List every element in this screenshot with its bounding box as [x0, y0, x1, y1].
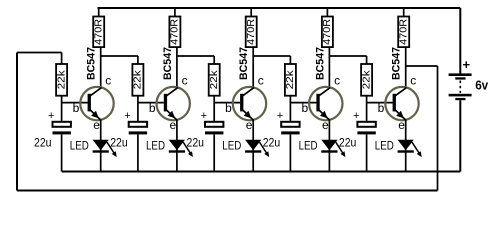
svg-text:470R: 470R: [322, 19, 333, 45]
svg-text:BC547: BC547: [314, 47, 326, 80]
svg-text:e: e: [246, 118, 253, 132]
svg-text:+: +: [353, 110, 359, 122]
svg-text:c: c: [182, 73, 188, 87]
svg-text:BC547: BC547: [162, 47, 174, 80]
svg-text:22k: 22k: [133, 69, 144, 89]
svg-text:c: c: [334, 73, 340, 87]
svg-text:e: e: [322, 118, 329, 132]
svg-text:+: +: [201, 110, 207, 122]
svg-text:c: c: [410, 73, 416, 87]
svg-text:22u: 22u: [34, 135, 52, 149]
svg-text:22k: 22k: [285, 69, 296, 89]
svg-text:+: +: [48, 110, 54, 122]
svg-text:BC547: BC547: [391, 47, 403, 80]
svg-text:c: c: [105, 73, 111, 87]
svg-text:BC547: BC547: [86, 47, 98, 80]
svg-text:b: b: [149, 101, 156, 115]
svg-text:b: b: [73, 101, 80, 115]
svg-text:22k: 22k: [56, 69, 67, 89]
svg-text:e: e: [398, 118, 405, 132]
svg-text:+: +: [124, 110, 130, 122]
svg-text:6v: 6v: [475, 78, 489, 93]
svg-text:LED: LED: [146, 139, 165, 153]
svg-text:b: b: [301, 101, 308, 115]
svg-text:b: b: [225, 101, 232, 115]
svg-text:c: c: [258, 73, 264, 87]
svg-text:22k: 22k: [209, 69, 220, 89]
svg-text:+: +: [277, 110, 283, 122]
svg-text:22u: 22u: [339, 135, 357, 149]
svg-text:LED: LED: [222, 139, 241, 153]
svg-text:470R: 470R: [246, 19, 257, 45]
svg-text:e: e: [93, 118, 100, 132]
svg-text:22k: 22k: [361, 69, 372, 89]
svg-text:470R: 470R: [398, 19, 409, 45]
svg-text:LED: LED: [70, 139, 89, 153]
svg-text:+: +: [463, 57, 471, 72]
svg-text:470R: 470R: [170, 19, 181, 45]
svg-text:22u: 22u: [263, 135, 281, 149]
svg-text:e: e: [169, 118, 176, 132]
svg-text:LED: LED: [375, 139, 394, 153]
svg-text:b: b: [378, 101, 385, 115]
svg-text:22u: 22u: [187, 135, 205, 149]
svg-text:22u: 22u: [110, 135, 128, 149]
svg-text:470R: 470R: [93, 19, 104, 45]
svg-text:LED: LED: [299, 139, 318, 153]
svg-text:BC547: BC547: [238, 47, 250, 80]
